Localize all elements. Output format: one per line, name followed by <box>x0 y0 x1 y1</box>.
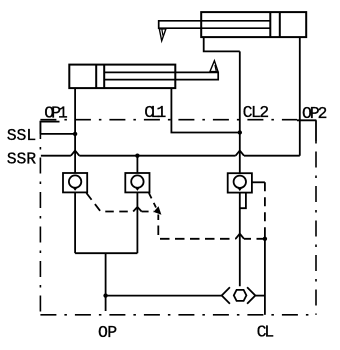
svg-text:CL1: CL1 <box>144 103 166 122</box>
hop pilot over CL wire <box>236 234 244 239</box>
wire CL2 vertical <box>239 51 241 173</box>
pilot dashed from V1 corner <box>86 193 133 212</box>
pilot stub from V3 <box>252 181 265 183</box>
valve V3 box <box>228 173 252 192</box>
hop SSR over CL2 wire <box>236 151 244 156</box>
svg-text:OP2: OP2 <box>302 104 327 123</box>
boundary bottom dash-dot <box>40 314 316 316</box>
valve V1 seat triangle <box>71 185 80 191</box>
cylinder CYL2 piston <box>269 12 271 37</box>
wire SSL <box>40 133 75 135</box>
pilot dashed vertical + bottom horizontal <box>158 215 235 239</box>
svg-text:SSR: SSR <box>7 149 36 168</box>
wire ball check to CL <box>255 295 265 297</box>
pilot dashed vertical from V3 <box>264 182 266 230</box>
hop SSR over OP1 wire <box>71 151 79 156</box>
wire valve V2 inlet <box>136 156 138 173</box>
svg-text:CL: CL <box>257 322 275 341</box>
svg-text:SSL: SSL <box>7 126 36 145</box>
svg-text:OP: OP <box>98 323 117 342</box>
hop pilot over V2 outlet <box>133 207 141 212</box>
wire OP horizontal <box>106 295 222 297</box>
wire bus to OP node <box>105 253 107 295</box>
OP1 label underline with leader <box>40 122 59 134</box>
svg-text:CL2: CL2 <box>243 103 270 122</box>
node SSR to valve V2 <box>135 154 139 158</box>
pilot dashed horizontal right part <box>142 211 154 213</box>
wire CYL2 rod-side leg (OP2) <box>299 37 301 156</box>
wire valve V1 outlet <box>74 192 76 253</box>
cylinder CYL1 piston <box>95 65 97 89</box>
valve V3 outlet loop <box>240 193 246 209</box>
wire SSR middle segment <box>79 155 235 157</box>
valve V2 seat triangle <box>133 185 142 191</box>
wire CYL1 cap leg (OP1) <box>74 88 76 173</box>
boundary left dash-dot <box>39 120 41 315</box>
wire CYL2 cap leg to CL2 <box>204 37 240 51</box>
wire valve V3 outlet <box>239 193 241 287</box>
wire SSR left segment <box>41 155 71 157</box>
tool marker on CYL2 rod <box>159 29 166 41</box>
cylinder CYL2 rod <box>159 21 271 28</box>
pilot dashed from V2 corner <box>149 193 156 208</box>
cylinder CYL2 body (top right) <box>201 12 306 37</box>
wire SSR right segment to OP2 leg <box>244 155 300 157</box>
node pilot/CL junction <box>263 237 267 241</box>
pilot arrowhead <box>154 206 162 215</box>
valve V1 box <box>63 173 87 192</box>
wire CL vertical <box>264 230 266 315</box>
node CL1/CL2 junction <box>238 130 242 134</box>
ball check ball <box>234 290 247 301</box>
wire OP port <box>105 296 107 311</box>
wire valve V2 outlet <box>136 192 138 253</box>
valve V2 box <box>125 173 149 192</box>
ball check seat right <box>247 287 255 303</box>
tool marker on CYL1 rod <box>210 61 218 72</box>
wire outlet bus <box>75 252 137 254</box>
valve V3 seat triangle <box>236 185 245 191</box>
cylinder CYL1 rod <box>104 72 218 79</box>
boundary right dash-dot <box>315 141 317 315</box>
cylinder CYL1 body (lower left) <box>69 65 175 89</box>
ball check seat left <box>222 287 230 303</box>
node OP junction <box>103 293 107 297</box>
node SSL junction <box>73 132 77 136</box>
boundary right solid top segment <box>315 120 317 141</box>
valve V1 ball <box>69 175 81 187</box>
valve V3 ball <box>234 176 246 188</box>
boundary top right solid (OP2 underline) <box>297 119 316 121</box>
boundary top dash-dot <box>40 119 297 121</box>
svg-text:OP1: OP1 <box>44 104 68 123</box>
valve V2 ball <box>131 175 143 187</box>
wire CYL1 rod leg to CL1 <box>171 88 239 132</box>
pilot dashed to CL junction <box>244 238 265 240</box>
